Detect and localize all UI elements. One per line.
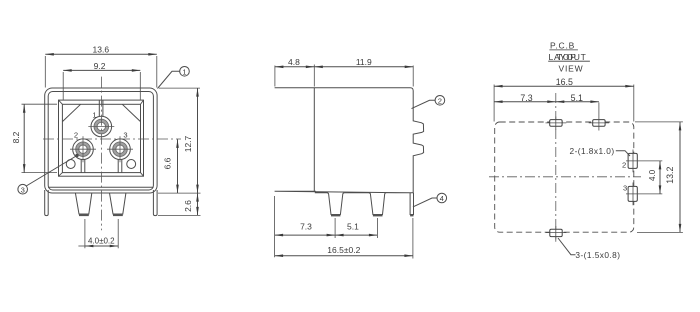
label 3-(1.5x0.8) bbox=[558, 238, 620, 260]
dim 16.5±0.2 bbox=[275, 218, 413, 259]
svg-text:3-(1.5x0.8): 3-(1.5x0.8) bbox=[575, 250, 620, 260]
front view: outer shell rounded rect bbox=[45, 88, 157, 193]
pcb horizontal centerline bbox=[489, 176, 641, 178]
svg-text:7.3: 7.3 bbox=[520, 93, 532, 103]
dim 11.9 bbox=[314, 66, 413, 87]
pcb dim 16.5 bbox=[494, 85, 634, 122]
svg-text:2: 2 bbox=[438, 97, 442, 106]
pcb dim 7.3 bbox=[494, 101, 556, 103]
corner hole right bbox=[127, 160, 136, 169]
svg-text:4.8: 4.8 bbox=[288, 57, 300, 67]
dim 13.6 bbox=[45, 54, 157, 87]
dim 4.0±0.2 bbox=[78, 219, 118, 248]
front view: key slot bbox=[99, 100, 103, 117]
callout 4 bbox=[413, 193, 447, 207]
svg-text:4.0±0.2: 4.0±0.2 bbox=[88, 237, 115, 246]
side leg caps bbox=[331, 214, 414, 216]
front view: shell seam line bbox=[48, 186, 153, 188]
front view: face frame inner bbox=[62, 104, 140, 172]
svg-text:3: 3 bbox=[123, 131, 127, 140]
pad right 2 bbox=[628, 150, 637, 173]
pcb vertical centerline bbox=[555, 93, 557, 242]
pin 2 tail bbox=[81, 159, 85, 172]
front horizontal centerline bbox=[43, 138, 181, 140]
svg-text:2: 2 bbox=[74, 131, 78, 140]
pad top right bbox=[589, 103, 609, 131]
pcb dim 5.1 bbox=[556, 101, 599, 103]
pin 3 tail bbox=[118, 159, 122, 172]
svg-text:9.2: 9.2 bbox=[94, 61, 106, 71]
front view: top-right chamfer bbox=[122, 104, 140, 121]
svg-text:2-(1.8x1.0): 2-(1.8x1.0) bbox=[570, 146, 615, 156]
svg-text:2: 2 bbox=[622, 161, 626, 170]
dim 9.2 bbox=[63, 70, 140, 99]
side view body outline bbox=[275, 88, 424, 215]
dim 2.6 bbox=[158, 193, 201, 215]
pin 2 bbox=[70, 136, 96, 162]
svg-text:11.9: 11.9 bbox=[356, 57, 372, 67]
svg-text:4: 4 bbox=[440, 194, 444, 203]
svg-text:16.5±0.2: 16.5±0.2 bbox=[327, 245, 360, 255]
side view face/body step line bbox=[313, 88, 315, 192]
svg-text:3: 3 bbox=[21, 185, 25, 194]
pcb dim 4.0 bbox=[626, 161, 662, 194]
dim 5.1 side bbox=[335, 218, 377, 238]
front view: top-left chamfer bbox=[62, 104, 80, 121]
front leg left bbox=[75, 193, 91, 215]
svg-text:TOP: TOP bbox=[557, 52, 577, 62]
svg-text:6.6: 6.6 bbox=[163, 157, 173, 169]
svg-text:1: 1 bbox=[92, 111, 96, 120]
svg-text:1: 1 bbox=[182, 68, 186, 77]
pcb dim 13.2 bbox=[635, 122, 683, 232]
callout 2 bbox=[412, 96, 445, 109]
svg-text:16.5: 16.5 bbox=[556, 77, 573, 87]
callout 3 bbox=[18, 154, 79, 195]
front view: face frame corner bevels bbox=[59, 100, 144, 176]
svg-text:12.7: 12.7 bbox=[183, 135, 193, 152]
svg-text:7.3: 7.3 bbox=[300, 222, 312, 232]
pin 1 bbox=[88, 116, 114, 137]
svg-text:4.0: 4.0 bbox=[648, 169, 657, 181]
svg-text:13.6: 13.6 bbox=[93, 45, 110, 55]
pad top left bbox=[546, 117, 567, 130]
label 2-(1.8x1.0) bbox=[570, 146, 631, 156]
corner hole left bbox=[66, 160, 75, 169]
front view: left mounting flange bbox=[45, 190, 49, 216]
title TOP VIEW bbox=[557, 52, 583, 74]
svg-text:3: 3 bbox=[623, 184, 627, 193]
dim 4.8 bbox=[275, 65, 314, 87]
pad bottom bbox=[546, 226, 567, 239]
dim 12.7 bbox=[159, 88, 200, 193]
pad right 3 bbox=[628, 183, 637, 206]
svg-text:VIEW: VIEW bbox=[559, 64, 584, 74]
svg-text:2.6: 2.6 bbox=[183, 200, 193, 212]
callout 1 bbox=[158, 67, 190, 89]
front view: face frame outer bbox=[59, 100, 144, 176]
front leg right bbox=[110, 193, 126, 215]
svg-text:8.2: 8.2 bbox=[11, 131, 21, 143]
pcb outline dashed bbox=[495, 122, 634, 232]
dim 7.3 side bbox=[275, 196, 336, 257]
front view: right mounting flange bbox=[153, 190, 157, 216]
svg-text:5.1: 5.1 bbox=[571, 93, 583, 103]
title P.C.B LAYOUT bbox=[548, 40, 590, 61]
svg-text:P.C.B: P.C.B bbox=[550, 40, 575, 50]
dim 6.6 bbox=[158, 139, 201, 193]
svg-text:5.1: 5.1 bbox=[347, 222, 359, 232]
svg-text:13.2: 13.2 bbox=[665, 167, 675, 184]
pin 3 bbox=[107, 136, 133, 162]
front vertical centerline bbox=[100, 77, 102, 231]
dim 8.2 bbox=[22, 104, 58, 172]
